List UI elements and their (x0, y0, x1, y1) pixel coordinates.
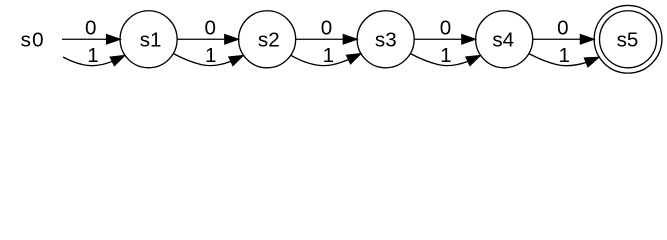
svg-text:s0: s0 (21, 29, 45, 52)
edge s0->s1 on input 0 (straight wire) (62, 35, 120, 44)
svg-text:1: 1 (440, 44, 451, 67)
arrowhead into s4 (0 edge) (462, 35, 475, 44)
arrowhead into s1 (1 edge) (110, 56, 124, 66)
edge s4->s5 on input 0 (straight wire) (533, 35, 594, 44)
edge s1->s2 on input 0 (straight wire) (177, 35, 238, 44)
edge s2->s3 on input 0 (straight wire) (296, 35, 357, 44)
edge s1->s2 on input 1 (curved wire) (174, 54, 243, 66)
svg-text:s4: s4 (492, 29, 514, 52)
arrowhead into s3 (1 edge) (347, 54, 361, 64)
state s3 (357, 11, 414, 68)
svg-text:0: 0 (204, 16, 215, 39)
edge s2->s3 on input 1 (curved wire) (291, 54, 360, 66)
state s1 (120, 11, 177, 68)
arrowhead into s3 (0 edge) (343, 35, 356, 44)
edge s3->s4 on input 1 (curved wire) (411, 54, 480, 66)
svg-text:0: 0 (321, 16, 332, 39)
svg-text:1: 1 (323, 44, 334, 67)
edge s0->s1 on input 1 (curved wire) (63, 56, 124, 66)
state s4 (476, 11, 533, 68)
svg-text:0: 0 (557, 16, 568, 39)
state s5 (accepting state, double circle) (594, 5, 662, 73)
svg-text:s5: s5 (617, 29, 639, 52)
arrowhead into s5 (1 edge) (584, 57, 598, 66)
svg-text:0: 0 (440, 16, 451, 39)
svg-text:s2: s2 (258, 29, 280, 52)
arrowhead into s2 (1 edge) (229, 56, 243, 66)
edge s3->s4 on input 0 (straight wire) (414, 35, 475, 44)
arrowhead into s4 (1 edge) (466, 56, 480, 66)
svg-text:s1: s1 (140, 29, 162, 52)
arrowhead into s1 (0 edge) (107, 35, 120, 44)
svg-text:1: 1 (205, 44, 216, 67)
edge s4->s5 on input 1 (curved wire) (529, 54, 598, 67)
arrowhead into s2 (0 edge) (225, 35, 238, 44)
svg-text:0: 0 (85, 16, 96, 39)
svg-text:1: 1 (558, 44, 569, 67)
state s2 (239, 11, 296, 68)
svg-text:s3: s3 (375, 29, 397, 52)
svg-text:1: 1 (87, 44, 98, 67)
arrowhead into s5 (0 edge) (580, 35, 593, 44)
